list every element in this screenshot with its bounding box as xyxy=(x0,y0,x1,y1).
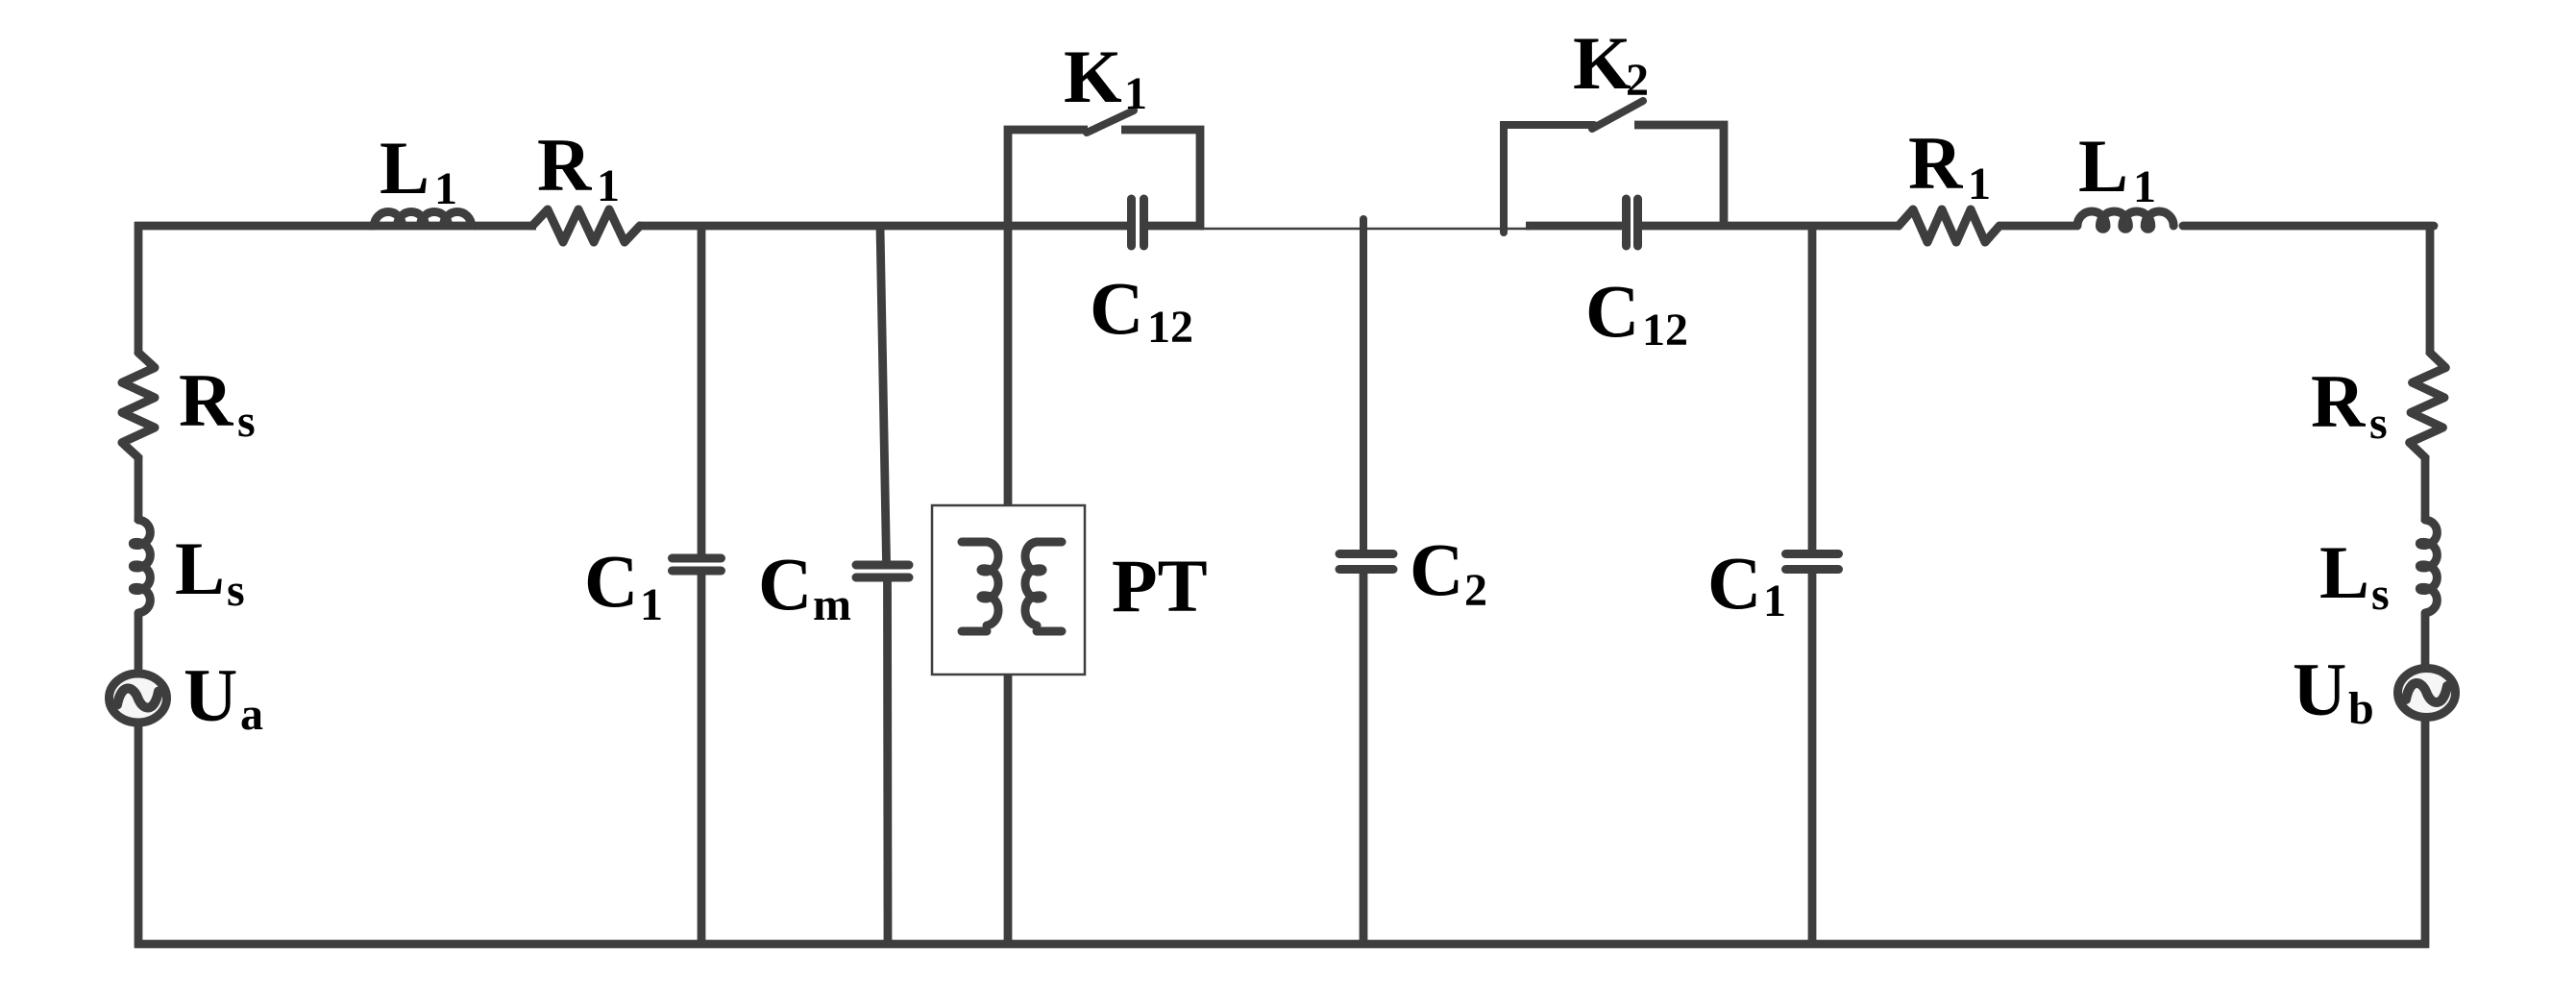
label Cm xyxy=(758,542,851,630)
svg-text:L: L xyxy=(380,126,429,209)
svg-text:C: C xyxy=(758,542,812,625)
wire top bus right of K2 xyxy=(1640,222,1901,231)
label C12 (right) xyxy=(1585,269,1688,355)
svg-text:R: R xyxy=(179,358,234,442)
svg-text:b: b xyxy=(2348,683,2374,734)
label C1 (left) xyxy=(584,539,663,630)
transformer PT xyxy=(932,505,1085,674)
resistor R1 (right) xyxy=(1899,209,1999,242)
wire PT primary riser xyxy=(1004,222,1013,506)
label Ls (left) xyxy=(175,527,245,616)
capacitor C1 (left) xyxy=(673,226,722,944)
wire C12 to K1 right leg xyxy=(1146,222,1204,231)
label K1 xyxy=(1064,35,1147,119)
svg-text:2: 2 xyxy=(1464,565,1487,616)
wire PT bottom lead xyxy=(1004,674,1013,944)
svg-text:1: 1 xyxy=(434,163,457,214)
capacitor C1 (right) xyxy=(1786,226,1839,944)
svg-text:1: 1 xyxy=(2133,161,2156,212)
capacitor C12 (parallel with K2) xyxy=(1627,199,1638,246)
label K2 xyxy=(1573,21,1649,106)
voltage source Ua xyxy=(110,674,167,723)
svg-text:K: K xyxy=(1064,35,1122,118)
switch K2 xyxy=(1504,101,1724,233)
svg-text:C: C xyxy=(584,539,638,623)
wire left vertical xyxy=(135,222,143,948)
wire right vertical xyxy=(2425,222,2430,948)
label Rs (right) xyxy=(2311,359,2388,449)
wire thin middle bus xyxy=(1200,228,1530,231)
svg-text:s: s xyxy=(227,565,245,616)
svg-text:1: 1 xyxy=(1763,576,1786,626)
wire between L1 and R1 (left) xyxy=(474,222,536,231)
wire top bus to C12 of K1 xyxy=(638,222,1129,231)
wire between R1 and L1 (right) xyxy=(2000,222,2075,231)
svg-text:1: 1 xyxy=(640,579,663,630)
inductor L1 (left) xyxy=(370,211,476,226)
resistor Rs (left) xyxy=(122,353,155,457)
svg-text:L: L xyxy=(2078,124,2128,208)
svg-text:m: m xyxy=(813,579,851,630)
svg-text:2: 2 xyxy=(1626,55,1649,106)
svg-text:R: R xyxy=(2311,359,2367,443)
svg-text:s: s xyxy=(2371,569,2390,620)
svg-text:12: 12 xyxy=(1642,305,1688,355)
label C12 (left) xyxy=(1090,266,1193,353)
switch K1 xyxy=(1008,110,1200,230)
svg-text:PT: PT xyxy=(1112,544,1208,627)
wire top bus left segment xyxy=(135,222,375,231)
label R1 (right resistor) xyxy=(1908,121,1991,209)
svg-text:a: a xyxy=(240,689,263,740)
inductor L1 (right) xyxy=(2077,211,2173,229)
label Ua xyxy=(184,653,263,740)
svg-text:R: R xyxy=(1908,121,1964,205)
svg-text:U: U xyxy=(184,653,237,737)
svg-text:C: C xyxy=(1090,266,1143,350)
svg-text:1: 1 xyxy=(597,160,620,211)
label Rs (left) xyxy=(179,358,256,447)
label PT xyxy=(1112,544,1208,627)
capacitor C12 (parallel with K1) xyxy=(1132,199,1144,246)
svg-text:C: C xyxy=(1585,269,1639,353)
label Ub xyxy=(2293,648,2374,734)
label C2 xyxy=(1410,527,1487,616)
svg-text:1: 1 xyxy=(1968,159,1991,209)
inductor Ls (left) xyxy=(133,520,150,613)
svg-text:s: s xyxy=(237,396,256,447)
capacitor C2 xyxy=(1339,219,1393,944)
wire K2 left leg to C12 xyxy=(1526,222,1624,231)
capacitor Cm xyxy=(856,226,909,944)
label C1 (right) xyxy=(1707,541,1786,626)
resistor R1 (left) xyxy=(532,209,640,242)
svg-text:12: 12 xyxy=(1147,302,1193,353)
inductor Ls (right) xyxy=(2419,520,2437,613)
svg-text:R: R xyxy=(537,123,593,207)
label R1 (left resistor) xyxy=(537,123,620,211)
svg-text:s: s xyxy=(2369,398,2388,449)
svg-text:L: L xyxy=(2319,530,2369,614)
resistor Rs (right) xyxy=(2410,353,2446,457)
label L1 (left inductor) xyxy=(380,126,457,214)
svg-text:K: K xyxy=(1573,21,1631,105)
wire top bus right segment xyxy=(2183,222,2434,231)
svg-text:C: C xyxy=(1707,541,1761,625)
voltage source Ub xyxy=(2398,669,2456,718)
wire bottom bus xyxy=(135,940,2429,948)
svg-text:C: C xyxy=(1410,527,1463,611)
label L1 (right inductor) xyxy=(2078,124,2156,212)
svg-text:L: L xyxy=(175,527,225,610)
svg-text:U: U xyxy=(2293,648,2346,731)
label Ls (right) xyxy=(2319,530,2390,620)
svg-text:1: 1 xyxy=(1124,68,1147,119)
